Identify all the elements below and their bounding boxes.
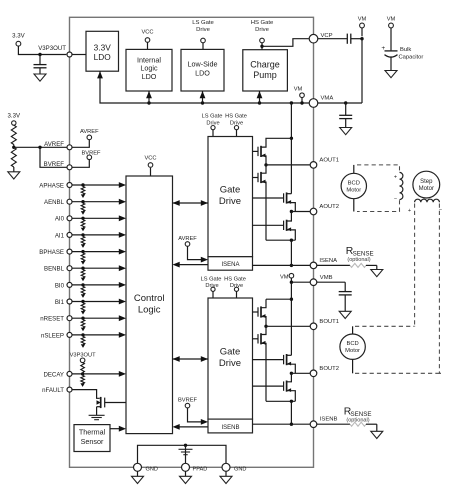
- ground below PPAD: [185, 471, 187, 476]
- svg-text:Drive: Drive: [219, 196, 241, 207]
- wire ISENB strip to ISENB pin: [253, 423, 311, 425]
- svg-text:3.3V: 3.3V: [12, 32, 25, 39]
- wire nRESET to Control Logic: [72, 317, 120, 319]
- svg-text:ISENA: ISENA: [221, 262, 239, 268]
- wire dashed BOUT1 to winding B: [355, 325, 415, 327]
- svg-text:Logic: Logic: [138, 305, 161, 316]
- wire ISENA strip to ISENA pin: [253, 264, 311, 266]
- wire VM to bulk capacitor: [390, 28, 392, 51]
- terminal VM (VCP side): [360, 23, 365, 28]
- svg-text:GND: GND: [234, 467, 246, 473]
- arrow ISENA into Control Logic: [173, 262, 180, 268]
- wire divider to AVREF pin: [14, 146, 67, 148]
- wire M2 drain to AOUT1 node: [261, 165, 266, 173]
- svg-text:LDO: LDO: [195, 69, 210, 78]
- svg-text:Gate: Gate: [220, 347, 241, 358]
- svg-text:BCD: BCD: [346, 341, 358, 347]
- svg-text:Gate: Gate: [220, 185, 241, 196]
- svg-text:LS Gate: LS Gate: [201, 277, 222, 283]
- resistor pulldown nRESET: [81, 320, 85, 328]
- ground RSENSE A: [376, 265, 378, 269]
- resistor R divider lower: [11, 147, 16, 167]
- block Gate Drive A: [208, 137, 253, 257]
- svg-text:+: +: [394, 175, 397, 181]
- transistor M2 bridge A low-side left: [253, 177, 259, 179]
- junction rail to Internal Logic LDO: [147, 101, 150, 104]
- arrow into Charge Pump: [257, 91, 263, 98]
- wire HS Gate Drive stem: [261, 43, 263, 50]
- wire dashed winding A to AOUT2: [357, 200, 400, 211]
- wire BENBL to Control Logic: [72, 267, 120, 269]
- resistor pulldown BPHASE: [81, 253, 85, 261]
- svg-text:BENBL: BENBL: [44, 266, 65, 273]
- svg-text:ISENB: ISENB: [221, 425, 239, 431]
- wire M4 drain to AOUT2 node: [287, 212, 292, 222]
- svg-text:AI0: AI0: [55, 216, 65, 223]
- pin PPAD: [182, 463, 190, 471]
- wire APHASE to Control Logic: [72, 184, 120, 186]
- svg-text:AOUT1: AOUT1: [319, 158, 339, 164]
- arrow bus Control Logic - Gate Drive A: [173, 202, 209, 204]
- svg-text:Drive: Drive: [196, 27, 210, 33]
- wire M8 source to sense rail B: [287, 391, 296, 402]
- svg-text:AI1: AI1: [55, 232, 65, 239]
- wire dashed winding B left to BOUT1: [415, 204, 416, 327]
- wire BVREF pin to internal node: [72, 160, 89, 168]
- arrow into Low-Side LDO: [200, 91, 206, 98]
- ground below VMB cap: [339, 311, 351, 318]
- svg-text:LS Gate: LS Gate: [192, 20, 214, 26]
- svg-text:Pump: Pump: [253, 70, 277, 80]
- pin VMA: [309, 99, 318, 108]
- svg-text:HS Gate: HS Gate: [224, 277, 246, 283]
- resistor pulldown AI0: [81, 220, 85, 228]
- arrow nSLEEP into Control Logic: [119, 332, 126, 338]
- wire BOUT1: [266, 325, 310, 327]
- svg-text:AOUT2: AOUT2: [319, 204, 339, 210]
- wire VCP to flying capacitor: [318, 38, 348, 40]
- svg-text:Motor: Motor: [345, 348, 360, 354]
- wire BPHASE to Control Logic: [72, 251, 120, 253]
- transistor M1 bridge A high-side left: [253, 150, 259, 152]
- arrow BPHASE into Control Logic: [119, 249, 126, 255]
- wire bridge B sense rail: [266, 400, 295, 402]
- arrow BI0 into Control Logic: [119, 282, 126, 288]
- ground below VMA cap: [340, 128, 352, 135]
- svg-text:VCC: VCC: [144, 156, 156, 162]
- svg-text:AENBL: AENBL: [44, 199, 65, 206]
- svg-text:Drive: Drive: [219, 358, 241, 369]
- wire PPAD stem: [185, 445, 187, 463]
- ground internal (hash): [179, 448, 193, 450]
- wire internal ground bus: [138, 445, 227, 463]
- wire V3P3OUT pin to 3.3V LDO: [72, 54, 86, 56]
- block ISENA sense strip: [208, 257, 253, 271]
- wire AI1 to Control Logic: [72, 234, 120, 236]
- terminal VM (bulk): [389, 23, 394, 28]
- ground nFAULT FET source: [89, 414, 105, 416]
- svg-text:BOUT1: BOUT1: [319, 319, 339, 325]
- svg-text:BI1: BI1: [55, 299, 65, 306]
- ground below V3P3OUT cap: [34, 74, 46, 81]
- wire M1 source to AOUT1: [261, 156, 266, 165]
- block 3.3V LDO U-LDO1: [86, 31, 119, 71]
- svg-text:PPAD: PPAD: [193, 467, 208, 473]
- svg-text:Capacitor: Capacitor: [399, 54, 424, 60]
- svg-text:Control: Control: [134, 293, 165, 304]
- svg-text:VM: VM: [387, 17, 396, 23]
- arrow bus Control Logic - Gate Drive B: [173, 358, 209, 360]
- wire VM down to VMA net: [361, 39, 363, 103]
- svg-text:AVREF: AVREF: [80, 129, 99, 135]
- resistor pulldown BENBL: [81, 270, 85, 278]
- svg-text:BPHASE: BPHASE: [39, 249, 64, 256]
- wire BVREF node to ISENB strip: [188, 408, 202, 422]
- wire M6 source to sense rail B: [261, 343, 266, 401]
- svg-text:BCD: BCD: [348, 180, 360, 186]
- capacitor C V3P3OUT: [34, 64, 47, 66]
- wire VMB drop to bridge B high side: [290, 282, 292, 355]
- pin GND right: [222, 463, 230, 471]
- wire AOUT1: [266, 164, 310, 166]
- resistor pulldown DECAY: [81, 375, 85, 383]
- svg-text:nFAULT: nFAULT: [42, 387, 64, 394]
- wire M7 source to BOUT2: [287, 364, 296, 373]
- wire VCC control stem: [150, 168, 152, 176]
- svg-text:ISENA: ISENA: [319, 258, 337, 264]
- transistor M5 bridge B high-side left: [253, 311, 259, 313]
- transistor M6 bridge B low-side left: [253, 338, 259, 340]
- svg-text:VMB: VMB: [320, 275, 333, 281]
- svg-text:VM: VM: [280, 274, 289, 280]
- block Charge Pump U-CP: [243, 50, 288, 91]
- wire M1 drain to VM: [261, 138, 291, 147]
- svg-text:Sensor: Sensor: [81, 437, 104, 446]
- wire M5 source to BOUT1: [261, 317, 266, 327]
- motor BCD Motor B: [352, 326, 354, 334]
- svg-text:GND: GND: [146, 467, 158, 473]
- svg-text:VM: VM: [358, 17, 367, 23]
- block Internal Logic LDO U-LDO2: [126, 49, 172, 91]
- arrow DECAY into Control Logic: [119, 371, 126, 377]
- svg-text:HS Gate: HS Gate: [225, 114, 247, 120]
- wire BI0 to Control Logic: [72, 284, 120, 286]
- svg-text:Thermal: Thermal: [79, 428, 106, 437]
- wire M3 drain to VM: [287, 193, 292, 195]
- wire BI1 to Control Logic: [72, 301, 120, 303]
- svg-text:nSLEEP: nSLEEP: [41, 332, 64, 339]
- svg-text:VM: VM: [294, 87, 303, 93]
- svg-text:+: +: [408, 208, 411, 214]
- arrow ISENB into Control Logic: [173, 424, 180, 430]
- wire VM drop to bridge A high side: [290, 103, 292, 194]
- wire ISENB to Control Logic: [177, 426, 208, 428]
- svg-text:LS Gate: LS Gate: [202, 114, 223, 120]
- junction rail to bridge A: [290, 101, 293, 104]
- ground below bulk capacitor: [385, 71, 397, 78]
- arrow AI1 into Control Logic: [119, 232, 126, 238]
- wire M4 source to sense rail: [287, 230, 296, 240]
- arrow into 3.3V LDO: [97, 71, 103, 78]
- svg-text:LDO: LDO: [142, 72, 157, 81]
- svg-text:(optional): (optional): [347, 257, 370, 263]
- arrow BENBL into Control Logic: [119, 265, 126, 271]
- wire dashed BOUT2 to winding B: [355, 372, 439, 374]
- arrow nRESET into Control Logic: [119, 315, 126, 321]
- block Gate Drive B: [208, 298, 253, 419]
- wire AENBL to Control Logic: [72, 201, 120, 203]
- resistor pulldown BI0: [81, 286, 85, 294]
- arrow BI1 into Control Logic: [119, 299, 126, 305]
- wire sense rail to ISENB: [290, 401, 292, 424]
- wire BOUT2: [291, 372, 310, 374]
- wire M2 source to sense rail: [261, 182, 266, 240]
- resistor pulldown AENBL: [81, 203, 85, 211]
- transistor M8 bridge B low-side right: [253, 385, 284, 387]
- wire DECAY to Control Logic: [72, 373, 120, 375]
- wire VMA to bypass cap: [318, 102, 362, 104]
- wire charge pump to VCP: [262, 39, 309, 47]
- transistor M7 bridge B high-side right: [253, 359, 284, 361]
- wire VMB: [291, 281, 310, 283]
- block Low-Side LDO U-LDO3: [181, 49, 224, 91]
- ground below GND left: [137, 471, 139, 476]
- wire divider to BVREF pin: [40, 147, 67, 167]
- svg-text:Drive: Drive: [255, 27, 269, 33]
- wire M3 source to AOUT2: [287, 203, 296, 212]
- wire VMB to bypass cap: [317, 281, 345, 283]
- wire LS Gate Drive stem: [202, 43, 204, 50]
- svg-text:BOUT2: BOUT2: [319, 366, 339, 372]
- wire nFAULT FET gate to Control Logic: [105, 402, 126, 404]
- wire bridge A sense rail: [266, 239, 295, 241]
- svg-text:BI0: BI0: [55, 282, 65, 289]
- wire nSLEEP to Control Logic: [72, 334, 120, 336]
- transistor M3 bridge A high-side right: [253, 197, 284, 199]
- svg-text:VCC: VCC: [141, 30, 153, 36]
- ground below GND right: [225, 471, 227, 476]
- svg-text:V3P3OUT: V3P3OUT: [38, 45, 66, 52]
- wire 3.3V to V3P3OUT: [18, 46, 66, 54]
- wire AVREF pin to internal node: [72, 140, 89, 148]
- arrow AVREF into ISENA: [201, 257, 208, 263]
- inductor winding A (step motor phase A): [400, 172, 403, 199]
- resistor pulldown BI1: [81, 303, 85, 311]
- svg-text:3.3V: 3.3V: [8, 112, 21, 119]
- svg-text:HS Gate: HS Gate: [251, 20, 274, 26]
- resistor pulldown APHASE: [81, 187, 85, 195]
- resistor pulldown AI1: [81, 236, 85, 244]
- svg-text:DECAY: DECAY: [43, 371, 64, 378]
- resistor pulldown nSLEEP: [81, 336, 85, 344]
- svg-text:3.3V: 3.3V: [94, 43, 112, 53]
- wire M6 drain to BOUT1 node: [261, 326, 266, 334]
- svg-text:(optional): (optional): [346, 417, 369, 423]
- svg-text:Charge: Charge: [250, 60, 280, 70]
- wire dashed AOUT1 to winding A: [357, 165, 400, 172]
- resistor R divider upper: [11, 125, 16, 144]
- junction rail to Low-Side LDO: [201, 101, 204, 104]
- wire M5 drain to VMB: [261, 299, 266, 308]
- wire AOUT2: [291, 211, 310, 213]
- inductor winding B (step motor phase B): [415, 199, 440, 202]
- svg-text:LDO: LDO: [94, 52, 112, 62]
- motor Step Motor: [413, 171, 440, 198]
- arrow Thermal Sensor to Control Logic: [110, 428, 120, 430]
- IC outer boundary: [70, 17, 314, 467]
- motor BCD Motor A: [353, 165, 355, 173]
- transistor M4 bridge A low-side right: [253, 224, 284, 226]
- wire nFAULT to open-drain FET: [72, 390, 100, 399]
- svg-text:Step: Step: [420, 179, 433, 185]
- arrow into Internal Logic LDO: [146, 91, 152, 98]
- wire M7 drain to VMB: [287, 354, 292, 356]
- block Control Logic U-CTRL: [126, 176, 173, 434]
- svg-text:ISENB: ISENB: [320, 417, 338, 423]
- wire ISENA to Control Logic: [177, 264, 208, 266]
- node divider junction: [13, 145, 15, 148]
- svg-text:APHASE: APHASE: [39, 182, 64, 189]
- wire VCC stem: [147, 42, 149, 49]
- wire AVREF node to ISENA strip: [188, 246, 202, 259]
- ground below divider: [8, 172, 20, 179]
- svg-text:Motor: Motor: [346, 187, 361, 193]
- junction rail to Charge Pump: [258, 101, 261, 104]
- svg-text:Low-Side: Low-Side: [188, 60, 218, 69]
- arrow APHASE into Control Logic: [119, 182, 126, 188]
- capacitor C-VCP flying: [346, 34, 348, 44]
- pin VCP: [309, 34, 318, 43]
- wire M8 drain to BOUT2 node: [287, 373, 292, 382]
- svg-text:−: −: [394, 196, 397, 202]
- arrow AI0 into Control Logic: [119, 215, 126, 221]
- pin GND left: [134, 463, 142, 471]
- svg-text:nRESET: nRESET: [40, 316, 64, 323]
- capacitor C-VMB bypass: [344, 282, 346, 291]
- svg-text:Bulk: Bulk: [400, 47, 411, 53]
- ground RSENSE B: [376, 424, 378, 431]
- wire nFAULT FET source to ground: [96, 407, 98, 416]
- wire AI0 to Control Logic: [72, 217, 120, 219]
- arrow AENBL into Control Logic: [119, 199, 126, 205]
- resistor pullup DECAY: [81, 363, 85, 373]
- arrow BVREF into ISENB: [201, 419, 208, 425]
- svg-text:VMA: VMA: [321, 96, 334, 102]
- svg-text:Motor: Motor: [419, 186, 434, 192]
- wire VM supply rail: [100, 71, 309, 103]
- block ISENB sense strip: [208, 419, 253, 433]
- wire flying cap to VM: [351, 38, 362, 40]
- transistor Q-nFAULT open drain: [104, 398, 106, 408]
- svg-text:BVREF: BVREF: [44, 161, 65, 168]
- node junction cap tap: [38, 53, 41, 56]
- wire dashed winding B right to BOUT2: [439, 204, 441, 374]
- wire sense rail to ISENA: [290, 240, 292, 265]
- svg-text:AVREF: AVREF: [44, 141, 64, 148]
- block Thermal Sensor: [74, 425, 110, 452]
- capacitor C-VMA bypass: [345, 103, 347, 115]
